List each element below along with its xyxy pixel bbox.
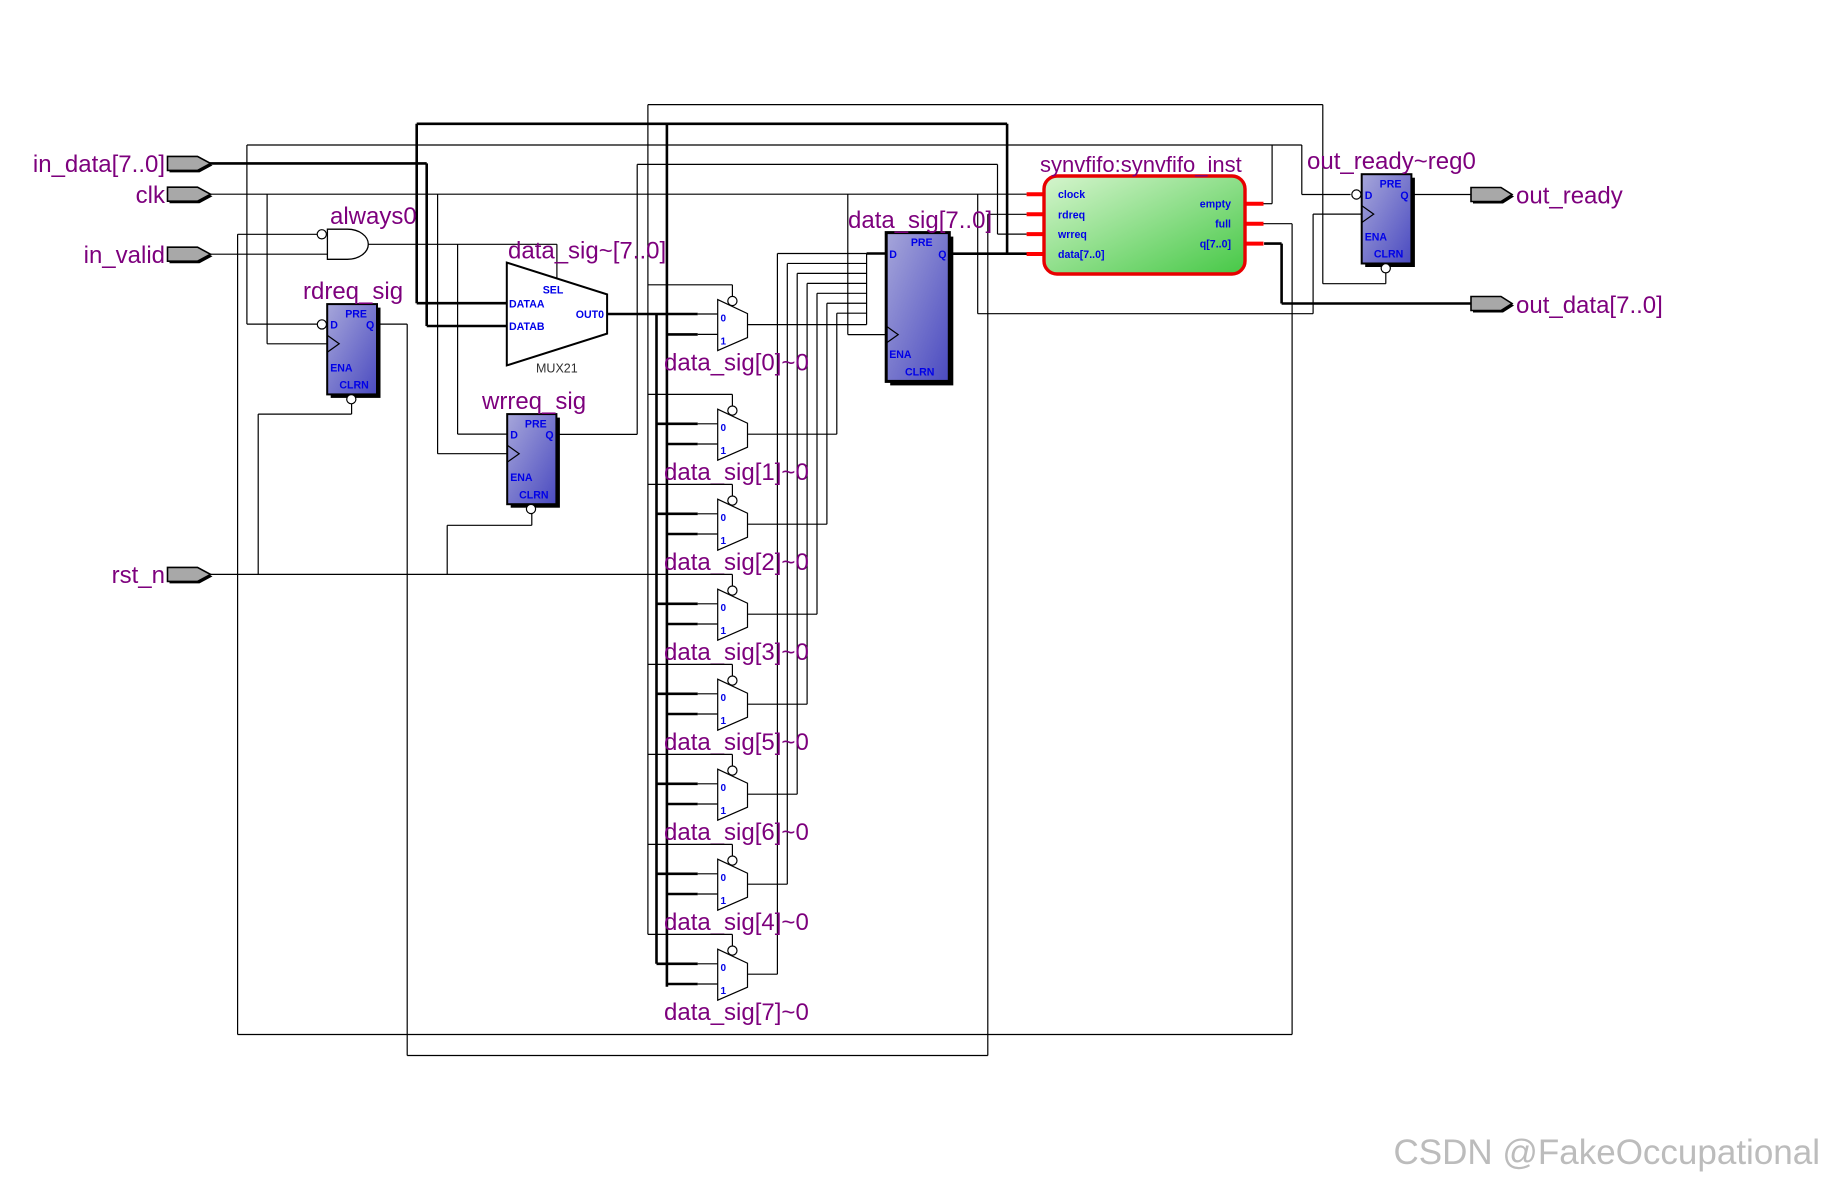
mux data_sig[7]~0	[648, 934, 809, 1026]
svg-text:DATAB: DATAB	[509, 321, 545, 333]
svg-text:D: D	[510, 430, 518, 442]
svg-text:0: 0	[721, 423, 727, 434]
wire out_ready~reg0 D riser	[1301, 145, 1303, 195]
svg-text:ENA: ENA	[330, 362, 353, 374]
svg-text:data_sig[5]~0: data_sig[5]~0	[664, 729, 809, 756]
svg-text:0: 0	[721, 963, 727, 974]
svg-text:1: 1	[721, 446, 727, 457]
svg-text:0: 0	[721, 783, 727, 794]
wire out_ready~reg0 CLRN link	[1323, 283, 1386, 285]
wire mux bit line pos2	[748, 523, 827, 525]
wire rdreq_sig CLRN to rst_n	[351, 404, 353, 414]
svg-text:Q: Q	[366, 320, 374, 332]
svg-text:in_data[7..0]: in_data[7..0]	[33, 151, 165, 178]
svg-text:clk: clk	[136, 182, 166, 209]
wire FIFO full loop to always0	[1262, 223, 1292, 225]
wire empty stub riser	[1271, 145, 1273, 204]
wire in_valid to always0	[206, 253, 327, 255]
wire feedback riser to DATAA	[415, 124, 418, 303]
svg-text:rdreq_sig: rdreq_sig	[303, 278, 403, 305]
svg-text:ENA: ENA	[1365, 232, 1388, 244]
wire rst_n distribution top line	[648, 104, 1323, 106]
mux data_sig[6]~0	[648, 754, 809, 846]
svg-text:OUT0: OUT0	[576, 309, 604, 321]
svg-text:D: D	[889, 249, 897, 261]
svg-text:ENA: ENA	[889, 349, 912, 361]
svg-text:PRE: PRE	[525, 418, 547, 430]
wire always0 output	[368, 243, 557, 245]
svg-text:1: 1	[721, 626, 727, 637]
svg-text:data_sig[7..0]: data_sig[7..0]	[848, 207, 992, 234]
svg-text:q[7..0]: q[7..0]	[1200, 239, 1231, 251]
wire mux bit line pos7	[748, 973, 778, 975]
wire rst_n select/clear riser	[647, 105, 649, 935]
svg-text:0: 0	[721, 603, 727, 614]
wire bit0 line to bus former	[748, 324, 867, 326]
MUX21 data_sig~[7..0]	[507, 238, 666, 376]
mux data_sig[1]~0	[648, 394, 809, 486]
wire clk to out_ready~reg0 clock	[977, 194, 979, 314]
svg-text:in_valid: in_valid	[84, 242, 165, 269]
svg-text:data_sig[0]~0: data_sig[0]~0	[664, 350, 809, 377]
mux data_sig[4]~0	[648, 844, 809, 936]
svg-text:CLRN: CLRN	[905, 367, 934, 379]
wire FIFO q to out_data	[1264, 242, 1282, 245]
FIFO synvfifo:synvfifo_inst	[1027, 152, 1264, 274]
input pin in_data[7..0]	[33, 151, 213, 178]
wire new-value bus riser	[655, 314, 658, 964]
svg-text:full: full	[1215, 219, 1231, 231]
wire mux bit line pos3	[748, 613, 818, 615]
output pin out_data[7..0]	[1471, 292, 1663, 319]
wire empty to rdreq_sig D	[246, 145, 248, 324]
svg-text:PRE: PRE	[1380, 178, 1402, 190]
wire clk to rdreq_sig clock	[266, 194, 268, 344]
svg-text:CLRN: CLRN	[339, 380, 368, 392]
svg-text:data_sig~[7..0]: data_sig~[7..0]	[508, 238, 666, 265]
wire clk to data_sig clock	[847, 194, 849, 334]
svg-text:D: D	[1365, 190, 1373, 202]
svg-text:Q: Q	[1400, 190, 1408, 202]
svg-text:1: 1	[721, 337, 727, 348]
svg-text:wrreq: wrreq	[1057, 229, 1087, 241]
mux data_sig[2]~0	[648, 484, 809, 576]
wire always0 to MUX21 SEL	[556, 244, 558, 278]
wire wrreq_sig Q to FIFO wrreq	[556, 433, 637, 435]
wire rdreq_sig Q loop to FIFO rdreq	[377, 323, 407, 325]
svg-text:data_sig[7]~0: data_sig[7]~0	[664, 999, 809, 1026]
svg-text:1: 1	[721, 536, 727, 547]
svg-text:PRE: PRE	[911, 237, 933, 249]
input pin clk	[136, 182, 213, 209]
svg-text:out_ready: out_ready	[1516, 183, 1623, 210]
svg-text:data_sig[1]~0: data_sig[1]~0	[664, 459, 809, 486]
wire mux bit line pos5	[748, 793, 798, 795]
svg-text:1: 1	[721, 896, 727, 907]
svg-text:clock: clock	[1058, 189, 1085, 201]
svg-text:CSDN @FakeOccupational: CSDN @FakeOccupational	[1393, 1133, 1820, 1172]
wire MUX21 OUT0 bus	[607, 313, 698, 316]
wire DATAB bus	[427, 325, 508, 328]
svg-text:out_ready~reg0: out_ready~reg0	[1307, 148, 1476, 175]
svg-text:empty: empty	[1200, 199, 1231, 211]
input pin rst_n	[112, 562, 213, 589]
svg-text:synvfifo:synvfifo_inst: synvfifo:synvfifo_inst	[1040, 152, 1242, 177]
svg-text:data_sig[4]~0: data_sig[4]~0	[664, 909, 809, 936]
wire always0 to wrreq_sig D	[457, 244, 459, 434]
mux data_sig[5]~0	[648, 664, 809, 756]
wire rst_n from pin	[204, 573, 648, 575]
wire wrreq_sig CLRN to rst_n	[531, 514, 533, 526]
flip-flop rdreq_sig	[303, 278, 403, 404]
wire rst_n riser to out_ready~reg0 CLRN	[1322, 105, 1324, 284]
wire out_ready~reg0 Q to out_ready pin	[1411, 194, 1474, 196]
svg-text:D: D	[330, 320, 338, 332]
svg-text:DATAA: DATAA	[509, 298, 545, 310]
wire mux bit line pos4	[748, 703, 808, 705]
wire mux bit line pos1	[748, 433, 837, 435]
mux data_sig[0]~0	[648, 285, 809, 377]
AND gate always0	[317, 203, 417, 259]
svg-text:MUX21: MUX21	[536, 362, 578, 376]
svg-text:Q: Q	[938, 249, 946, 261]
wire feedback hold bus riser	[666, 124, 669, 987]
wire clk to wrreq_sig clock	[437, 194, 439, 454]
svg-text:1: 1	[721, 806, 727, 817]
flip-flop wrreq_sig	[481, 388, 586, 514]
svg-text:0: 0	[721, 873, 727, 884]
svg-text:1: 1	[721, 986, 727, 997]
svg-text:CLRN: CLRN	[519, 489, 548, 501]
register data_sig[7..0]	[848, 207, 992, 385]
svg-text:wrreq_sig: wrreq_sig	[481, 388, 586, 415]
svg-text:data_sig[3]~0: data_sig[3]~0	[664, 639, 809, 666]
svg-text:rdreq: rdreq	[1058, 209, 1085, 221]
wire mux bit line pos6	[748, 883, 788, 885]
flip-flop out_ready~reg0	[1307, 148, 1476, 273]
output pin out_ready	[1471, 183, 1623, 210]
svg-text:ENA: ENA	[510, 472, 533, 484]
svg-text:data_sig[2]~0: data_sig[2]~0	[664, 549, 809, 576]
svg-text:Q: Q	[545, 430, 553, 442]
svg-text:PRE: PRE	[345, 308, 367, 320]
wire data_sig feedback bus top	[417, 123, 1007, 126]
wire feedback riser to q-line	[1006, 124, 1009, 254]
svg-text:1: 1	[721, 716, 727, 727]
wire clk net	[204, 193, 1027, 195]
svg-text:out_data[7..0]: out_data[7..0]	[1516, 292, 1663, 319]
svg-text:always0: always0	[330, 203, 417, 230]
svg-text:rst_n: rst_n	[112, 562, 165, 589]
wire empty net horizontal	[247, 144, 1302, 146]
input pin in_valid	[84, 242, 213, 269]
wire in_data bus	[206, 162, 427, 165]
svg-text:0: 0	[721, 693, 727, 704]
wire data_sig Q bus to FIFO data	[949, 252, 1027, 255]
svg-text:0: 0	[721, 513, 727, 524]
mux data_sig[3]~0	[648, 574, 809, 666]
wire data_sig D bus former	[866, 254, 868, 325]
wire DATAA bus	[417, 302, 508, 305]
svg-text:SEL: SEL	[543, 285, 564, 297]
svg-text:data_sig[6]~0: data_sig[6]~0	[664, 819, 809, 846]
svg-text:data[7..0]: data[7..0]	[1058, 249, 1105, 261]
svg-text:CLRN: CLRN	[1374, 249, 1403, 261]
svg-text:0: 0	[721, 314, 727, 325]
